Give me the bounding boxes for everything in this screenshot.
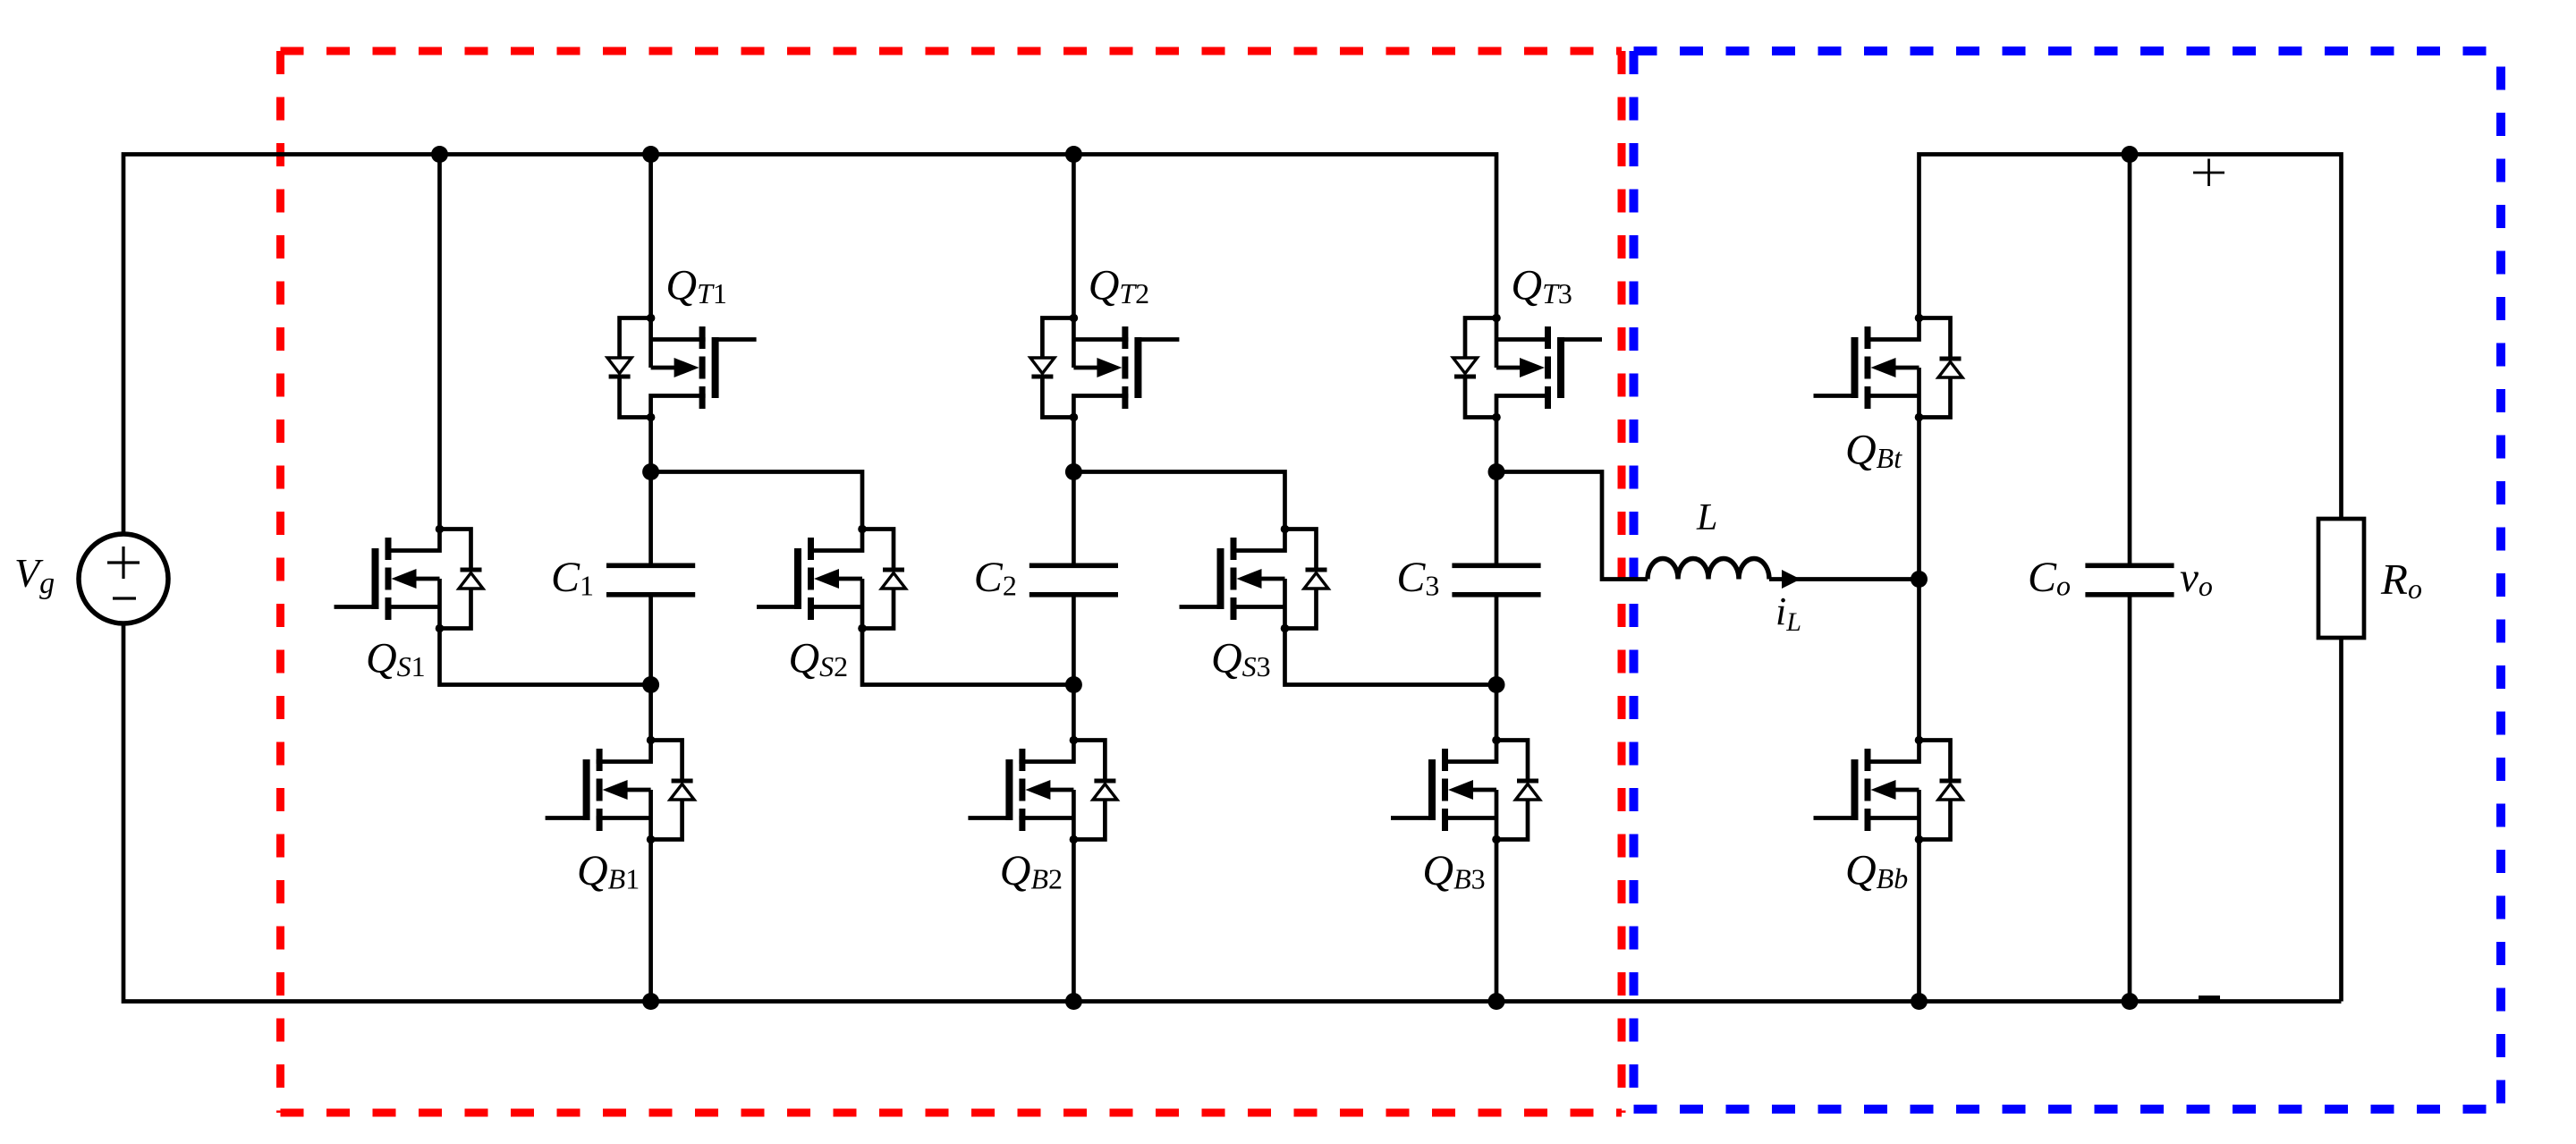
svg-text:L: L xyxy=(1696,497,1717,538)
